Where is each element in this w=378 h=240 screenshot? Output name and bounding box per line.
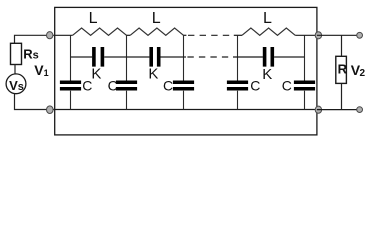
svg-text:K: K — [148, 66, 158, 83]
wire stub after node 3 — [184, 34, 187, 36]
dashed continuation K-line — [187, 56, 228, 58]
terminal bottom right — [357, 107, 363, 113]
svg-text:C: C — [282, 77, 292, 93]
node input top — [47, 32, 53, 39]
wire between L1 and L2 — [127, 34, 131, 36]
capacitor C3 — [173, 82, 194, 89]
svg-text:K: K — [262, 66, 272, 83]
source Vs — [6, 74, 26, 94]
wire top rail left — [55, 34, 73, 36]
label Vs — [9, 78, 24, 93]
terminal top right — [357, 32, 363, 38]
label C5 — [282, 77, 292, 93]
wire Vs to bottom rail — [15, 94, 55, 110]
svg-text:L: L — [152, 10, 161, 27]
label L3 — [263, 10, 272, 27]
inductor L1 — [73, 28, 127, 35]
label C3 — [163, 77, 173, 93]
wire top-left from source branch to box — [15, 35, 55, 43]
label C1 — [82, 77, 92, 93]
label V2 — [351, 62, 366, 79]
svg-text:C: C — [108, 77, 118, 93]
branch node 1 vertical — [70, 36, 72, 110]
label C2 — [108, 77, 118, 93]
wire Rs to Vs — [14, 65, 16, 75]
branch node 3 vertical — [183, 36, 185, 110]
node input bottom — [47, 106, 54, 114]
label R — [338, 61, 348, 76]
coupling capacitor K1 — [71, 47, 150, 67]
capacitor C2 — [116, 82, 137, 89]
label V1 — [34, 62, 48, 78]
branch node 2 vertical — [126, 36, 128, 110]
load resistor R — [336, 35, 347, 109]
capacitor C5 — [294, 82, 315, 89]
bottom rail — [55, 109, 317, 111]
node output top — [315, 32, 321, 39]
coupling capacitor K3 — [265, 47, 305, 67]
label L1 — [89, 10, 98, 27]
wire stub K-line after node 3 — [184, 56, 187, 58]
enclosing network box — [55, 7, 317, 134]
wire before L3 — [234, 34, 242, 36]
svg-text:2: 2 — [360, 68, 366, 79]
wire top rail right — [295, 34, 317, 36]
label C4 — [250, 77, 260, 93]
branch node 4 vertical — [237, 36, 239, 110]
svg-text:R: R — [338, 61, 348, 76]
resistor Rs — [11, 43, 22, 64]
wire output top — [317, 34, 357, 36]
capacitor C4 — [227, 82, 248, 89]
svg-text:Vs: Vs — [9, 78, 24, 93]
node output bottom — [315, 106, 321, 113]
coupling capacitor K2 — [151, 47, 183, 67]
label L2 — [152, 10, 161, 27]
svg-text:Rs: Rs — [23, 47, 39, 62]
branch node 5 vertical — [304, 36, 306, 110]
svg-text:L: L — [263, 10, 272, 27]
svg-text:C: C — [250, 77, 260, 93]
svg-text:L: L — [89, 10, 98, 27]
dashed continuation top rail — [188, 34, 229, 36]
svg-text:1: 1 — [44, 68, 49, 78]
label K2 — [148, 66, 158, 83]
wire output bottom — [317, 109, 357, 111]
wire K-line into node 4 — [233, 56, 263, 58]
label Rs — [23, 47, 39, 62]
svg-text:K: K — [91, 66, 101, 83]
label K3 — [262, 66, 272, 83]
capacitor C1 — [60, 82, 81, 89]
label K1 — [91, 66, 101, 83]
inductor L3 — [242, 28, 295, 35]
svg-text:C: C — [163, 77, 173, 93]
inductor L2 — [130, 28, 183, 35]
